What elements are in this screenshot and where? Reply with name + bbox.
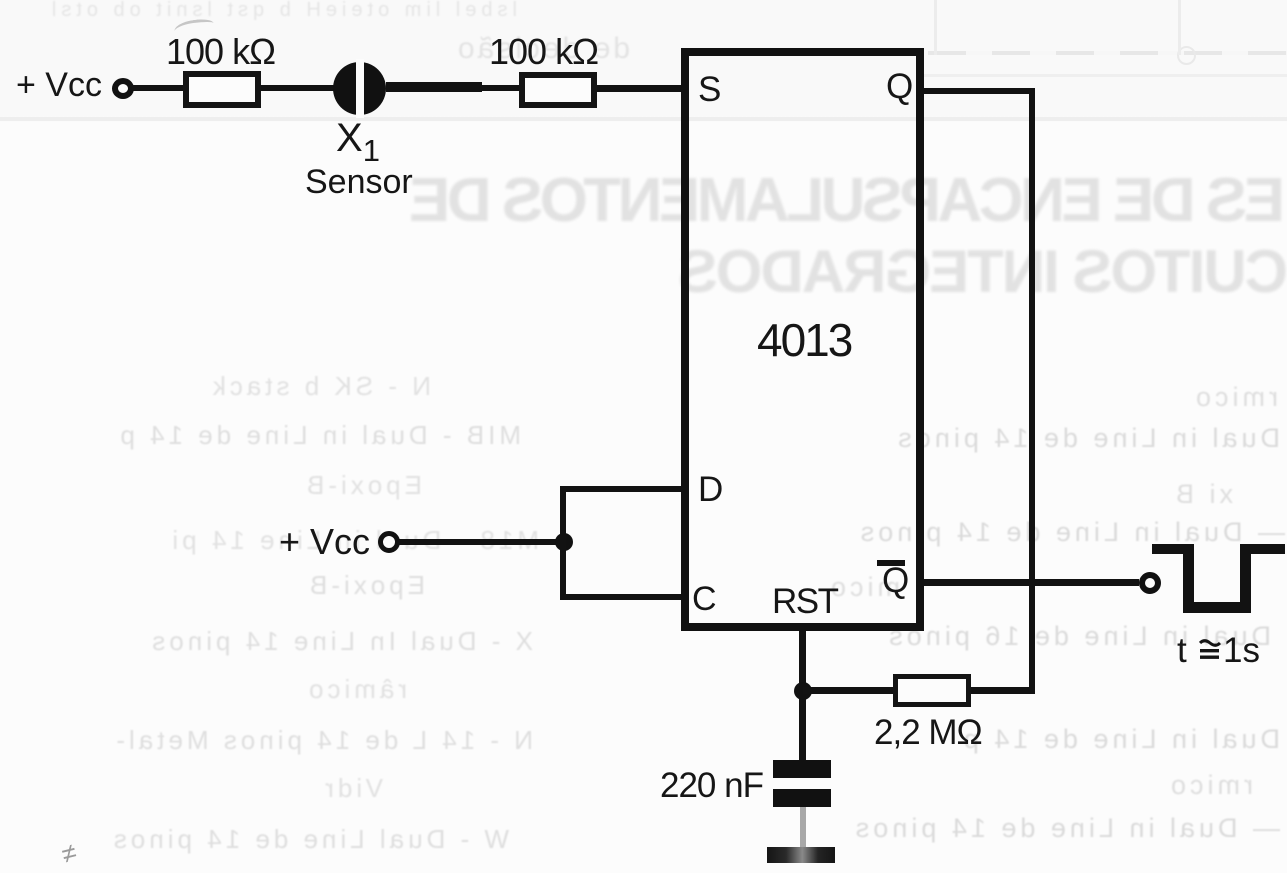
pin label D — [698, 472, 723, 507]
sensor X1 slot — [356, 59, 364, 118]
pin label RST — [772, 584, 838, 619]
junction dot RST — [794, 682, 812, 700]
pin label C — [692, 582, 717, 616]
wire Vcc to junction — [398, 539, 562, 545]
wire junction to R3 — [803, 687, 893, 694]
wire Q vertical down — [1029, 88, 1035, 693]
pin label Q — [886, 69, 913, 104]
wire R1 to sensor — [261, 85, 335, 91]
capacitor C1 plate 1 — [773, 760, 831, 778]
sensor X1 body — [333, 62, 386, 115]
IC U1 4013 box — [681, 48, 924, 631]
resistor R2 100k — [519, 72, 597, 108]
resistor R3 2.2M — [893, 674, 971, 707]
terminal Qbar out — [1139, 572, 1161, 594]
label 4013 — [757, 317, 851, 363]
node +Vcc top label — [16, 68, 102, 102]
wire R2 to IC pin S — [597, 85, 681, 92]
wire Q out horizontal — [924, 88, 1035, 94]
wire RST vertical — [799, 631, 806, 760]
wire terminal to R1 — [132, 85, 184, 91]
terminal +Vcc top — [112, 78, 134, 99]
label X1 — [336, 118, 380, 166]
label R2 100 kOhm — [489, 34, 598, 70]
waveform pulse — [1152, 544, 1194, 554]
junction dot D/C — [555, 533, 573, 551]
label Sensor — [305, 165, 413, 199]
capacitor lead faded — [800, 807, 806, 847]
pin label Qbar — [882, 563, 909, 598]
wire Qbar out — [924, 579, 1139, 586]
wire to pin D — [560, 486, 681, 492]
wire bracket vertical — [560, 486, 566, 599]
label t ~= 1s — [1177, 633, 1187, 668]
terminal +Vcc mid — [378, 531, 400, 553]
wire R3 to Q line — [971, 687, 1035, 694]
wire sensor to R2 (thick) — [386, 82, 482, 92]
capacitor C1 plate 2 — [773, 789, 831, 807]
Qbar overline — [877, 560, 905, 566]
label R1 100 kOhm — [166, 34, 275, 70]
pin label S — [698, 72, 721, 107]
label C1 220 nF — [660, 768, 763, 803]
label R3 2,2 MOhm — [874, 715, 982, 750]
resistor R1 100k — [183, 71, 261, 108]
node +Vcc mid label — [279, 524, 370, 560]
wire to pin C — [560, 594, 681, 600]
wire to R2 — [479, 85, 521, 91]
ground bar — [767, 847, 835, 863]
